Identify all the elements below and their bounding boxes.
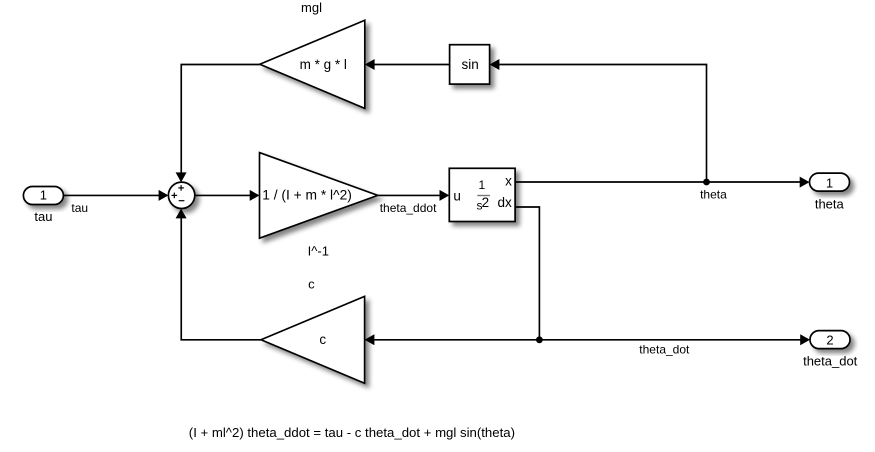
svg-text:1: 1 [40, 188, 47, 203]
svg-text:(I + ml^2) theta_ddot = tau -: (I + ml^2) theta_ddot = tau - c theta_do… [189, 425, 515, 440]
svg-text:2: 2 [826, 333, 833, 348]
svg-text:1: 1 [826, 175, 833, 190]
svg-text:theta_dot: theta_dot [639, 343, 690, 357]
svg-text:theta_ddot: theta_ddot [380, 201, 437, 215]
svg-text:1 / (I + m * l^2): 1 / (I + m * l^2) [262, 187, 352, 202]
svg-text:c: c [308, 277, 315, 292]
svg-text:theta: theta [700, 187, 727, 201]
svg-text:x: x [505, 174, 512, 189]
svg-text:dx: dx [498, 195, 513, 210]
svg-text:I^-1: I^-1 [308, 244, 329, 259]
svg-text:mgl: mgl [301, 0, 322, 15]
svg-text:sin: sin [461, 57, 478, 72]
svg-text:theta_dot: theta_dot [803, 353, 858, 368]
svg-text:tau: tau [34, 209, 52, 224]
svg-text:1: 1 [479, 178, 486, 192]
svg-text:2: 2 [482, 195, 490, 210]
svg-text:m * g * l: m * g * l [300, 57, 347, 72]
svg-text:tau: tau [71, 201, 88, 215]
svg-text:c: c [319, 332, 326, 347]
svg-text:theta: theta [815, 197, 845, 212]
svg-text:u: u [453, 188, 461, 203]
